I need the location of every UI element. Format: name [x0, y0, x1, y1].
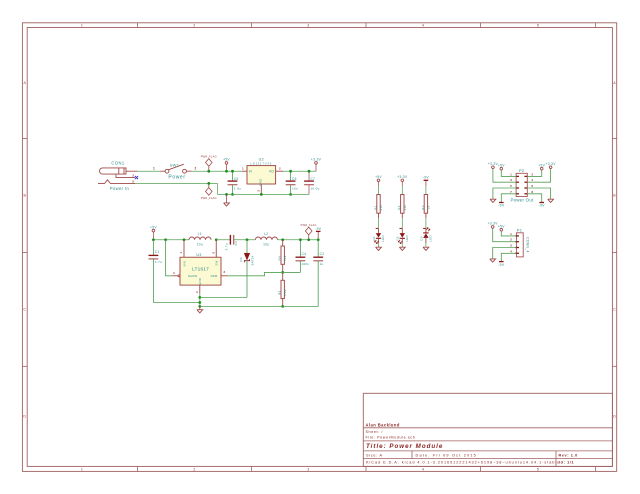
svg-text:P2: P2	[519, 168, 525, 173]
ground symbol under D3	[423, 247, 429, 250]
wire P2 pin2 to +5V	[527, 170, 541, 176]
svg-text:PWR_FLAG: PWR_FLAG	[201, 156, 217, 159]
L2 value label	[263, 242, 269, 246]
wire SW1 to U2 input node	[192, 170, 242, 172]
power +3.3V for D2	[397, 175, 408, 186]
ground symbol of LT1617 stage	[197, 306, 203, 313]
svg-text:2: 2	[195, 167, 197, 171]
U3 pin name GND	[198, 278, 202, 285]
wire P1 pin3 to ground	[493, 248, 517, 259]
svg-text:+5V: +5V	[498, 163, 505, 167]
R1 value label	[379, 205, 383, 211]
svg-text:CON1: CON1	[111, 161, 125, 166]
svg-text:C3: C3	[234, 241, 238, 245]
svg-text:1: 1	[510, 172, 512, 176]
power +3.3V at P1 pin2	[488, 222, 499, 229]
junction gnd-C1 branch	[198, 301, 201, 304]
wire gnd jog down	[217, 183, 219, 194]
power +5V at P2 pin1	[498, 163, 505, 170]
svg-text:8: 8	[531, 190, 533, 194]
D3 value label	[429, 235, 433, 242]
svg-text:6: 6	[531, 184, 533, 188]
svg-text:+5V: +5V	[150, 225, 157, 229]
svg-text:C6: C6	[292, 177, 297, 181]
svg-text:B: B	[23, 194, 26, 198]
junction C4 top	[299, 238, 302, 241]
frame zone letters	[23, 81, 616, 418]
R5 value label	[283, 289, 287, 296]
svg-text:51k: 51k	[283, 255, 287, 261]
R3 reference label	[421, 205, 425, 209]
svg-text:2: 2	[510, 238, 512, 242]
power -9V symbol on output	[315, 227, 322, 240]
svg-text:C5: C5	[234, 177, 239, 181]
wire P2 pin1 to +5V	[501, 170, 516, 176]
svg-text:+3.3V: +3.3V	[311, 158, 322, 162]
svg-text:10u: 10u	[197, 242, 203, 246]
R1 reference label	[373, 205, 377, 209]
svg-text:+3.3V: +3.3V	[545, 162, 556, 166]
svg-text:-9V: -9V	[423, 176, 430, 180]
frame row ticks	[22, 139, 616, 367]
title block kicad version / id	[366, 461, 574, 465]
title block author	[366, 422, 400, 427]
capacitor C6	[286, 171, 296, 194]
svg-text:Rev: 1.0: Rev: 1.0	[559, 453, 578, 457]
L2 reference label	[264, 232, 268, 236]
junction SHDN branch	[164, 238, 167, 241]
svg-text:4.7u: 4.7u	[225, 243, 229, 250]
svg-text:1k: 1k	[426, 205, 430, 209]
svg-text:D2: D2	[396, 236, 400, 240]
wire P2 pin3 to +3.3V	[493, 169, 516, 183]
D1 reference label	[372, 236, 376, 240]
resistor R5	[281, 272, 284, 306]
resistor R1	[377, 195, 380, 219]
wire D1 to ground	[378, 243, 380, 247]
C6 value label	[292, 187, 298, 191]
U3 pin VIN lead	[179, 240, 184, 258]
C3 reference label	[234, 241, 238, 245]
svg-text:-9V: -9V	[498, 204, 505, 208]
svg-text:LED: LED	[405, 235, 409, 242]
C3 value label 4.7u	[225, 243, 229, 250]
frame zone numbers	[81, 24, 539, 472]
svg-text:10.0u: 10.0u	[310, 187, 319, 191]
CON1 value label Power In	[110, 186, 130, 191]
P2 pin numbers	[510, 172, 533, 193]
junction gnd stem	[225, 193, 228, 196]
U2 pin 1 VI	[242, 167, 252, 174]
svg-text:GND: GND	[259, 178, 263, 186]
junction U2 gnd pin	[260, 193, 263, 196]
title block outline	[363, 393, 612, 466]
svg-text:4: 4	[531, 178, 533, 182]
svg-text:1: 1	[153, 167, 155, 171]
svg-text:1u: 1u	[320, 262, 324, 266]
power +3.3V at P2 pin4	[545, 162, 556, 169]
svg-text:1: 1	[179, 252, 183, 254]
junction C2 top	[317, 238, 320, 241]
wire L2 to -9V output node	[278, 239, 319, 241]
C5 value label	[234, 187, 241, 191]
ground symbol under D2	[399, 247, 405, 250]
capacitor C1	[149, 240, 159, 303]
svg-text:R2: R2	[397, 205, 401, 209]
svg-text:Date: Fri 09 Oct 2015: Date: Fri 09 Oct 2015	[416, 453, 478, 457]
title block title	[366, 443, 443, 450]
ground symbol under D1	[376, 247, 382, 250]
wire R2 to D2	[401, 218, 403, 229]
R2 value label	[403, 205, 407, 211]
power +5V feeding LT1617	[150, 225, 157, 239]
svg-text:3: 3	[307, 24, 309, 28]
svg-text:1: 1	[242, 167, 244, 171]
svg-text:C1: C1	[155, 250, 160, 254]
svg-text:B: B	[613, 194, 616, 198]
title block file	[366, 436, 416, 440]
R2 reference label	[397, 205, 401, 209]
svg-text:BAT54: BAT54	[250, 255, 254, 265]
title block size/date/rev	[366, 453, 578, 457]
svg-text:3: 3	[256, 190, 260, 192]
svg-text:LD1117V33: LD1117V33	[251, 161, 273, 165]
junction C5 bottom	[231, 193, 234, 196]
svg-text:SW: SW	[215, 260, 219, 265]
L1 value label	[197, 242, 203, 246]
inductor L2	[255, 237, 277, 240]
svg-text:8.2k: 8.2k	[283, 289, 287, 296]
svg-text:4: 4	[422, 24, 424, 28]
L1 reference label	[198, 232, 202, 236]
svg-text:Title: Power Module: Title: Power Module	[366, 443, 443, 450]
svg-text:R3: R3	[421, 205, 425, 209]
capacitor C7	[304, 171, 314, 194]
capacitor C2 output	[313, 240, 323, 307]
U3 pin name VIN	[182, 261, 186, 267]
wire P2 pin7 to -9V	[501, 194, 516, 203]
svg-text:100n: 100n	[302, 262, 310, 266]
svg-text:3: 3	[510, 244, 512, 248]
D1 value label	[381, 235, 385, 242]
resistor R4	[281, 240, 284, 273]
junction gnd-diode branch	[198, 296, 201, 299]
frame column ticks	[138, 23, 596, 472]
P1 pin stubs	[515, 236, 519, 253]
capacitor C4 feedforward	[296, 240, 306, 273]
wire R3 to D3	[425, 218, 427, 229]
svg-text:Power: Power	[168, 174, 185, 180]
wire +3.3V to R2	[401, 186, 403, 195]
svg-text:5: 5	[211, 252, 215, 254]
svg-text:Size: A: Size: A	[366, 453, 383, 457]
svg-text:NFB: NFB	[211, 274, 218, 278]
D3 pin tick	[423, 227, 426, 229]
SW1 pin number 1	[0, 0, 1, 1]
svg-text:KiCad E.D.A. kicad 4.0.1-3.20: KiCad E.D.A. kicad 4.0.1-3.2016512221432…	[366, 461, 560, 465]
svg-text:CONN_4: CONN_4	[526, 237, 530, 253]
svg-text:330: 330	[403, 205, 407, 211]
power -9V for D3	[423, 176, 430, 186]
wire gnd to diode bottom	[200, 296, 247, 298]
wire R1 to D1	[378, 218, 380, 229]
R4 reference label	[278, 256, 282, 260]
SW1 value label Power	[168, 174, 185, 180]
wire D3 to ground	[425, 243, 427, 247]
U2 value label LD1117V33	[251, 161, 273, 165]
wire SHDN branch down	[166, 240, 173, 276]
svg-text:1: 1	[510, 232, 512, 236]
C1 reference label	[155, 250, 160, 254]
svg-text:2: 2	[531, 172, 533, 176]
wire CON1 pin1 to SW1	[138, 170, 161, 172]
D2 reference label	[396, 236, 400, 240]
ground symbol of U2 stage	[224, 194, 230, 206]
svg-text:U3: U3	[196, 253, 201, 257]
svg-text:4: 4	[510, 249, 512, 253]
U3 reference label	[196, 253, 201, 257]
svg-text:-9V: -9V	[498, 263, 505, 267]
regulator U2 body	[247, 166, 276, 184]
C2 reference label	[320, 252, 325, 256]
C1 value label	[155, 260, 162, 264]
svg-text:1.0u: 1.0u	[234, 187, 241, 191]
resistor R2	[401, 195, 404, 219]
power -9V at P2 pin7	[498, 203, 505, 208]
U3 NFB pin lead	[221, 270, 228, 276]
junction L1 right / SW	[215, 238, 218, 241]
wire P2 pin6 to ground	[527, 188, 550, 199]
CON1 pin number 1	[153, 167, 155, 171]
svg-text:C7: C7	[310, 177, 315, 181]
ground symbol at P2 pin5	[490, 199, 496, 202]
LED D3	[423, 228, 430, 243]
power +3.3V output rail	[311, 158, 322, 172]
wire P1 pin2 to +3.3V	[493, 228, 517, 241]
title block sheet	[366, 430, 384, 434]
U3 value label LT1617	[192, 267, 209, 273]
svg-text:D3: D3	[419, 236, 423, 240]
U3 GND pin lead	[195, 285, 200, 306]
CON1 pin number 3	[132, 173, 134, 177]
C2 value label	[320, 262, 324, 266]
connector CON1 barrel jack	[98, 168, 138, 184]
power +5V on input rail	[223, 158, 230, 172]
svg-text:10u: 10u	[292, 187, 298, 191]
wire LT1617 ground rail	[200, 305, 318, 307]
svg-text:LT1617: LT1617	[192, 267, 209, 273]
svg-text:330: 330	[379, 205, 383, 211]
junction at PWR_FLAG2	[207, 182, 210, 185]
U2 reference label	[259, 157, 264, 161]
wire +5V to R1	[378, 186, 380, 195]
op-amp U3 body LT1617	[180, 257, 221, 285]
LED D1	[375, 229, 382, 244]
power +5V at P2 pin2	[538, 163, 545, 170]
power +5V for D1	[375, 175, 382, 186]
SW1 reference label	[170, 162, 180, 167]
svg-text:R4: R4	[278, 256, 282, 260]
svg-text:D: D	[613, 415, 616, 419]
P2 reference label	[519, 168, 525, 173]
svg-text:3: 3	[510, 178, 512, 182]
svg-text:D1: D1	[372, 236, 376, 240]
power flag PWR_FLAG3 on -9V rail	[301, 224, 317, 240]
inductor L1	[189, 237, 211, 240]
D3 reference label	[419, 236, 423, 240]
D2 value label	[405, 235, 409, 242]
svg-text:Power Out: Power Out	[511, 197, 535, 202]
P1 pin numbers	[510, 232, 512, 253]
switch SW1	[160, 164, 192, 173]
power -9V at P2 pin8	[539, 203, 546, 208]
wire C1 bottom to gnd stem	[153, 302, 199, 304]
C7 value label	[310, 187, 319, 191]
U3 SHDN pin with bubble	[172, 271, 180, 277]
wire P1 pin1 to +5V	[501, 231, 516, 236]
wire SW node to C3	[216, 239, 230, 241]
svg-text:+5V: +5V	[498, 225, 505, 229]
C6 reference label	[292, 177, 297, 181]
junction R4 top	[281, 238, 284, 241]
svg-text:5: 5	[537, 468, 539, 472]
junction R5 bottom	[281, 305, 284, 308]
junction feedback node	[281, 271, 284, 274]
svg-text:+3.3V: +3.3V	[488, 222, 499, 226]
svg-text:A: A	[613, 81, 616, 85]
connector P1 body	[516, 233, 523, 257]
junction at +5V input	[225, 170, 228, 173]
svg-text:1: 1	[81, 24, 83, 28]
SW1 pin number 2	[195, 167, 197, 171]
D1 pin tick	[376, 227, 379, 229]
svg-text:5: 5	[510, 184, 512, 188]
svg-text:C: C	[23, 308, 26, 312]
wire P2 pin4 to +3.3V	[527, 169, 550, 183]
svg-text:L1: L1	[198, 232, 202, 236]
D2 pin tick	[400, 227, 403, 229]
D4 reference label	[239, 257, 243, 261]
U2 pin 2 VO	[269, 167, 283, 174]
R3 value label	[426, 205, 430, 209]
svg-text:PWR_FLAG: PWR_FLAG	[201, 197, 217, 200]
P1 reference label	[517, 227, 523, 232]
junction +5V/C1	[152, 238, 155, 241]
svg-text:+3.3V: +3.3V	[397, 175, 408, 179]
junction C6 top	[289, 170, 292, 173]
svg-text:3: 3	[223, 270, 225, 274]
LED D2	[398, 229, 405, 244]
C7 reference label	[310, 177, 315, 181]
svg-text:VO: VO	[269, 170, 274, 174]
P2 pin stubs	[516, 176, 527, 193]
D4 value label	[250, 255, 254, 265]
svg-text:Id: 1/1: Id: 1/1	[559, 461, 574, 465]
svg-text:D: D	[23, 415, 26, 419]
wire P2 pin8 to -9V	[527, 194, 541, 203]
power flag PWR_FLAG2 below input return	[201, 183, 217, 200]
P2 value label Power Out	[511, 197, 535, 202]
C4 value label	[302, 262, 310, 266]
P1 value label CONN_4	[526, 237, 530, 253]
power flag PWR_FLAG1 on input rail	[201, 156, 217, 172]
title block row lines	[363, 428, 612, 467]
svg-text:1: 1	[81, 468, 83, 472]
svg-text:A: A	[23, 81, 26, 85]
junction at PWR_FLAG1	[207, 170, 210, 173]
svg-text:R5: R5	[278, 290, 282, 294]
svg-text:R1: R1	[373, 205, 377, 209]
svg-text:7: 7	[510, 190, 512, 194]
U3 pin name SHDN	[188, 274, 197, 278]
svg-text:D4: D4	[239, 257, 243, 261]
ground symbol at P1 pin3	[490, 259, 496, 262]
junction gnd rail left	[198, 305, 201, 308]
schottky diode D4	[244, 240, 250, 298]
wire ground rail of U2 stage	[218, 193, 310, 195]
U3 pin SW lead	[211, 240, 216, 258]
wire CON1 sleeve to gnd jog	[135, 182, 218, 184]
svg-text:LED: LED	[429, 235, 433, 242]
svg-text:SHDN: SHDN	[188, 274, 197, 278]
wire D2 to ground	[401, 243, 403, 247]
R5 reference label	[278, 290, 282, 294]
svg-text:3: 3	[307, 468, 309, 472]
svg-text:C: C	[613, 308, 616, 312]
wire C3 to node A	[234, 239, 256, 241]
svg-text:LED: LED	[381, 235, 385, 242]
junction C7 top	[308, 170, 311, 173]
svg-text:File: PowerModule.sch: File: PowerModule.sch	[366, 436, 416, 440]
svg-text:SW1: SW1	[170, 162, 180, 167]
svg-text:P1: P1	[517, 227, 523, 232]
junction PWR_FLAG3	[307, 238, 310, 241]
capacitor C3 coupling	[230, 235, 233, 245]
U3 pin name NFB	[211, 274, 218, 278]
power +5V at P1 pin1	[498, 225, 505, 232]
svg-text:Power In: Power In	[110, 186, 130, 191]
svg-text:2: 2	[193, 468, 195, 472]
wire +5V rail to L1	[153, 239, 189, 241]
wire U2 output to +3.3V node	[283, 170, 316, 172]
svg-text:4: 4	[422, 468, 424, 472]
connector P2 body	[516, 173, 527, 196]
svg-text:+3.3V: +3.3V	[488, 162, 499, 166]
svg-text:Alan Backlund: Alan Backlund	[366, 422, 400, 427]
power +3.3V at P2 pin3	[488, 162, 499, 169]
svg-text:+5V: +5V	[375, 175, 382, 179]
svg-text:Sheet: /: Sheet: /	[366, 430, 384, 434]
no-connect X on CON1 pin 3	[135, 176, 138, 179]
svg-text:3: 3	[132, 173, 134, 177]
wire feedback node run	[228, 272, 301, 275]
svg-text:-9V: -9V	[315, 227, 322, 231]
junction L1 left / VIN	[183, 238, 186, 241]
svg-text:5: 5	[537, 24, 539, 28]
svg-text:GND: GND	[198, 278, 202, 285]
ground symbol at P2 pin6	[548, 199, 554, 202]
R4 value label	[283, 255, 287, 261]
power -9V at P1 pin4	[498, 262, 505, 267]
svg-text:10u: 10u	[263, 242, 269, 246]
svg-text:L2: L2	[264, 232, 268, 236]
junction node A	[246, 238, 249, 241]
svg-text:2: 2	[195, 291, 199, 293]
CON1 reference label	[111, 161, 125, 166]
svg-text:2: 2	[193, 24, 195, 28]
resistor R3	[424, 195, 427, 219]
U3 pin name SW	[215, 260, 219, 265]
